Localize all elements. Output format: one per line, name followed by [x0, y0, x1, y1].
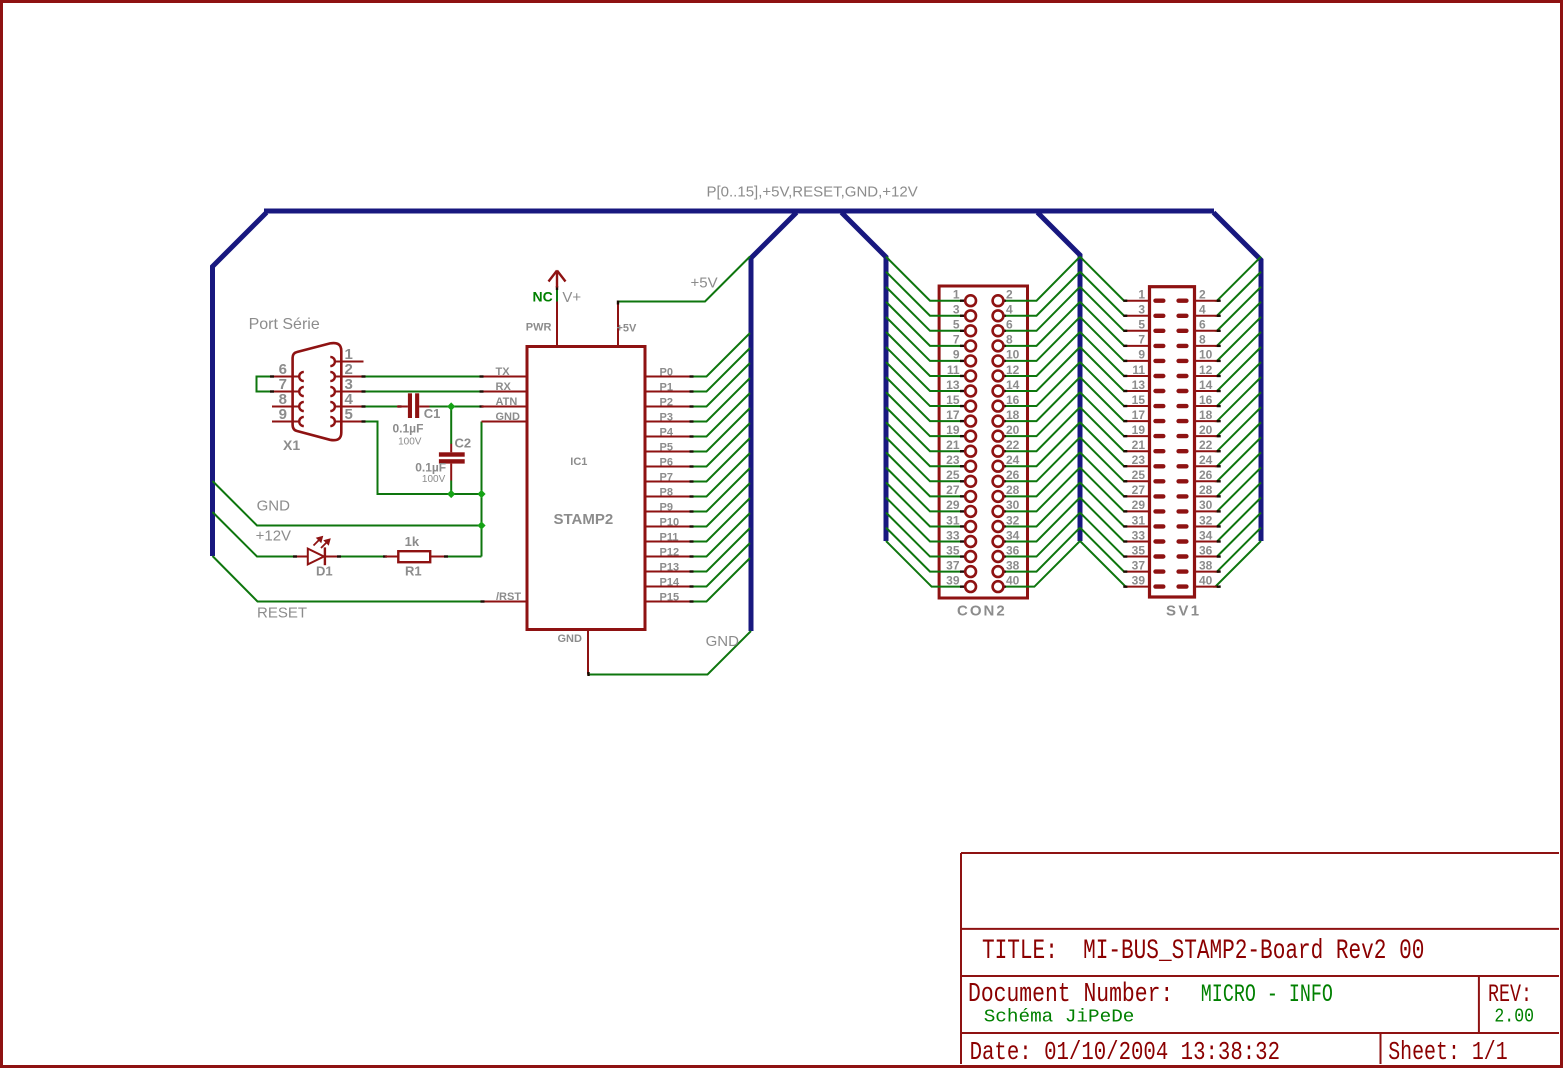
wire SV1 pin 30 to bus: [1217, 467, 1261, 511]
SV1 pin 39 stub: [1125, 586, 1151, 588]
wire SV1 pin 27 to bus: [1080, 452, 1125, 496]
CON2 pin 31 circle: [960, 525, 964, 527]
wire P4 to bus: [692, 393, 751, 437]
svg-text:15: 15: [946, 393, 960, 407]
svg-text:16: 16: [1199, 393, 1213, 407]
SV1 pin 40 stub: [1193, 586, 1219, 588]
SV1 pin 19 stub: [1125, 435, 1151, 437]
svg-text:P2: P2: [660, 397, 673, 409]
IC1 pin +5V line: [617, 302, 619, 347]
svg-text:D1: D1: [316, 564, 333, 579]
wire CON2 pin 14 to bus: [1004, 347, 1080, 391]
wire CON2 pin 39 to bus: [886, 541, 961, 587]
SV1 pin 38 contact: [1176, 569, 1188, 573]
bus P[0..15] top horizontal: [264, 209, 1214, 214]
SV1 pin 16 stub: [1193, 405, 1219, 407]
LED D1 anode lead: [294, 556, 308, 558]
svg-text:40: 40: [1006, 573, 1020, 587]
svg-text:IC1: IC1: [570, 456, 587, 468]
wire CON2 pin 9 to bus: [886, 317, 961, 361]
SV1 pin 31 stub: [1125, 525, 1151, 527]
svg-text:0.1µF: 0.1µF: [415, 460, 446, 474]
bus left arm to left trunk: [213, 213, 267, 557]
wire SV1 pin 38 to bus: [1217, 528, 1261, 572]
svg-text:20: 20: [1006, 423, 1020, 437]
svg-text:26: 26: [1199, 468, 1213, 482]
svg-text:32: 32: [1006, 513, 1020, 527]
wire CON2 pin 37 to bus: [886, 528, 961, 572]
SV1 pin 24 contact: [1176, 464, 1188, 468]
svg-text:17: 17: [946, 408, 960, 422]
wire CON2 pin 21 to bus: [886, 407, 961, 451]
wire CON2 pin 35 to bus: [886, 513, 961, 557]
wire C2 bottom: [450, 481, 452, 495]
SV1 pin 25 contact: [1153, 479, 1165, 483]
wire SV1 pin 32 to bus: [1217, 482, 1261, 526]
CON2 pin 27 circle: [960, 495, 964, 497]
wire P3 to bus: [692, 378, 751, 422]
title block grid: [961, 852, 1559, 854]
wire P11 to bus: [692, 498, 751, 542]
svg-text:TITLE: MI-BUS_STAMP2-Board Re: TITLE: MI-BUS_STAMP2-Board Rev2 00: [982, 936, 1424, 966]
svg-text:ATN: ATN: [496, 396, 518, 408]
CON2 pin 24 circle: [1002, 465, 1006, 467]
SV1 pin 33 stub: [1125, 541, 1151, 543]
SV1 pin 35 contact: [1153, 554, 1165, 558]
CON2 pin 40 circle: [1002, 585, 1006, 587]
CON2 pin 11 circle: [960, 375, 964, 377]
CON2 pin 6 circle: [1002, 330, 1006, 332]
CON2 pin 39 circle: [960, 585, 964, 587]
svg-text:5: 5: [953, 318, 960, 332]
svg-text:30: 30: [1199, 498, 1213, 512]
IC1 pin P1 line: [646, 391, 692, 393]
SV1 pin 7 stub: [1125, 345, 1151, 347]
svg-text:29: 29: [1132, 498, 1146, 512]
SV1 pin 16 contact: [1176, 404, 1188, 408]
SV1 pin 38 stub: [1193, 571, 1219, 573]
SV1 pin 18 stub: [1193, 420, 1219, 422]
wire CON2 pin 30 to bus: [1004, 467, 1080, 511]
IC1 pin P7 line: [646, 481, 692, 483]
svg-text:P0: P0: [660, 367, 673, 379]
svg-text:39: 39: [946, 573, 960, 587]
svg-text:SV1: SV1: [1166, 603, 1202, 620]
SV1 pin 21 contact: [1153, 449, 1165, 453]
svg-text:13: 13: [946, 378, 960, 392]
wire CON2 pin 32 to bus: [1004, 482, 1080, 526]
svg-text:14: 14: [1006, 378, 1020, 392]
wire P14 to bus: [692, 543, 751, 587]
svg-text:29: 29: [946, 498, 960, 512]
wire CON2 pin 22 to bus: [1004, 407, 1080, 451]
wire P5 to bus: [692, 408, 751, 452]
wire CON2 pin 6 to bus: [1004, 287, 1080, 331]
svg-text:34: 34: [1199, 528, 1213, 542]
wire CON2 pin 18 to bus: [1004, 377, 1080, 421]
wire SV1 pin 40 to bus: [1215, 541, 1261, 587]
wire SV1 pin 12 to bus: [1217, 332, 1261, 376]
wire CON2 pin 4 to bus: [1004, 272, 1080, 316]
wire CON2 pin 25 to bus: [886, 437, 961, 481]
wire SV1 pin 23 to bus: [1080, 422, 1125, 466]
SV1 pin 9 contact: [1153, 359, 1165, 363]
svg-text:100V: 100V: [398, 436, 422, 447]
wire +5V to bus: [618, 257, 750, 302]
CON2 pin 20 circle: [1002, 435, 1006, 437]
CON2 pin 19 circle: [960, 435, 964, 437]
SV1 pin 25 stub: [1125, 480, 1151, 482]
svg-text:100V: 100V: [422, 474, 446, 485]
CON2 pin 17 circle: [960, 420, 964, 422]
SV1 pin 4 stub: [1193, 315, 1219, 317]
svg-text:Sheet: 1/1: Sheet: 1/1: [1388, 1038, 1508, 1067]
SV1 pin 32 stub: [1193, 525, 1219, 527]
bus arm to mid trunk (CON2/SV1): [1038, 213, 1081, 542]
wire SV1 pin 10 to bus: [1217, 317, 1261, 361]
svg-text:38: 38: [1199, 558, 1213, 572]
svg-text:R1: R1: [405, 564, 422, 579]
SV1 pin 34 contact: [1176, 539, 1188, 543]
wire SV1 pin 17 to bus: [1080, 377, 1125, 421]
wire GND vertical (IC GND to R1): [481, 422, 483, 557]
SV1 pin 27 contact: [1153, 494, 1165, 498]
svg-text:20: 20: [1199, 423, 1213, 437]
wire P7 to bus: [692, 438, 751, 482]
X1 left pin contacts (pins 6-9): [299, 372, 304, 381]
svg-text:P4: P4: [660, 427, 674, 439]
X1 left pin lines 6-9: [272, 376, 300, 378]
wire CON2 pin 23 to bus: [886, 422, 961, 466]
CON2 pin 16 circle: [1002, 405, 1006, 407]
SV1 pin 11 contact: [1153, 374, 1165, 378]
wire R1 to GND vertical: [446, 556, 482, 558]
SV1 pin 10 stub: [1193, 360, 1219, 362]
SV1 pin 17 stub: [1125, 420, 1151, 422]
wire +12V from bus: [213, 512, 296, 557]
svg-text:5: 5: [345, 406, 353, 423]
wire CON2 pin 2 to bus: [1004, 257, 1080, 301]
CON2 pin 4 circle: [1002, 315, 1006, 317]
svg-text:4: 4: [1006, 303, 1013, 317]
svg-text:13: 13: [1132, 378, 1146, 392]
IC1 pin P8 line: [646, 496, 692, 498]
junction ATN/C2: [447, 402, 455, 410]
svg-text:27: 27: [1132, 483, 1146, 497]
wire D1 to R1: [339, 556, 385, 558]
wire NC stub on PWR: [556, 288, 558, 302]
svg-text:40: 40: [1199, 573, 1213, 587]
wire SV1 pin 35 to bus: [1080, 513, 1125, 557]
svg-text:9: 9: [1138, 348, 1145, 362]
svg-text:17: 17: [1132, 408, 1146, 422]
svg-text:9: 9: [279, 406, 287, 423]
SV1 pin 5 contact: [1153, 329, 1165, 333]
CON2 pin 13 circle: [960, 390, 964, 392]
SV1 pin 28 contact: [1176, 494, 1188, 498]
svg-text:+5V: +5V: [617, 323, 638, 335]
SV1 pin 10 contact: [1176, 359, 1188, 363]
IC1 pin P2 line: [646, 406, 692, 408]
svg-text:22: 22: [1006, 438, 1020, 452]
svg-text:31: 31: [946, 513, 960, 527]
svg-text:TX: TX: [496, 366, 511, 378]
X1 right pin lines 1-5: [335, 361, 364, 363]
wire P6 to bus: [692, 423, 751, 467]
svg-text:12: 12: [1006, 363, 1020, 377]
SV1 pin 34 stub: [1193, 541, 1219, 543]
SV1 pin 22 stub: [1193, 450, 1219, 452]
wire CON2 pin 24 to bus: [1004, 422, 1080, 466]
wire SV1 pin 37 to bus: [1080, 528, 1125, 572]
SV1 pin 12 stub: [1193, 375, 1219, 377]
capacitor C1 plates: [408, 393, 412, 418]
wire CON2 pin 20 to bus: [1004, 392, 1080, 436]
wire CON2 pin 16 to bus: [1004, 362, 1080, 406]
svg-text:18: 18: [1199, 408, 1213, 422]
SV1 pin 18 contact: [1176, 419, 1188, 423]
svg-text:GND: GND: [257, 498, 291, 515]
IC1 pin P5 line: [646, 451, 692, 453]
svg-text:23: 23: [1132, 453, 1146, 467]
svg-text:3: 3: [953, 303, 960, 317]
svg-text:9: 9: [953, 348, 960, 362]
svg-text:3: 3: [1138, 303, 1145, 317]
CON2 pin 30 circle: [1002, 510, 1006, 512]
SV1 pin 21 stub: [1125, 450, 1151, 452]
svg-text:X1: X1: [283, 437, 300, 453]
SV1 pin 15 contact: [1153, 404, 1165, 408]
svg-text:P13: P13: [660, 562, 680, 574]
SV1 pin 6 stub: [1193, 330, 1219, 332]
CON2 pin 33 circle: [960, 540, 964, 542]
svg-text:CON2: CON2: [957, 603, 1007, 620]
SV1 pin 40 contact: [1176, 584, 1188, 588]
svg-text:28: 28: [1199, 483, 1213, 497]
svg-text:21: 21: [946, 438, 960, 452]
svg-text:37: 37: [946, 558, 960, 572]
wire SV1 pin 25 to bus: [1080, 437, 1125, 481]
CON2 pin 15 circle: [960, 405, 964, 407]
svg-text:11: 11: [947, 363, 960, 377]
SV1 pin 23 stub: [1125, 465, 1151, 467]
IC1 pin P4 line: [646, 436, 692, 438]
SV1 pin 29 stub: [1125, 510, 1151, 512]
SV1 pin 27 stub: [1125, 495, 1151, 497]
SV1 pin 35 stub: [1125, 556, 1151, 558]
bus arm to CON2-left trunk: [842, 213, 887, 542]
svg-text:+12V: +12V: [256, 528, 291, 545]
wire IC GND to bus: [588, 631, 751, 675]
svg-text:1k: 1k: [405, 534, 420, 549]
svg-text:36: 36: [1199, 543, 1213, 557]
wire CON2 pin 12 to bus: [1004, 332, 1080, 376]
CON2 pin 35 circle: [960, 555, 964, 557]
svg-text:7: 7: [953, 333, 960, 347]
wire CON2 pin 7 to bus: [886, 302, 961, 346]
wire SV1 pin 4 to bus: [1217, 272, 1261, 316]
CON2 pin 28 circle: [1002, 495, 1006, 497]
wire CON2 pin 10 to bus: [1004, 317, 1080, 361]
IC1 pin P10 line: [646, 526, 692, 528]
wire TX (pin2 to IC): [364, 376, 482, 378]
IC1 STAMP2 body: [527, 347, 645, 630]
svg-text:P7: P7: [660, 472, 673, 484]
svg-text:GND: GND: [496, 411, 521, 423]
svg-text:19: 19: [946, 423, 960, 437]
IC1 pin TX line: [482, 376, 527, 378]
wire SV1 pin 21 to bus: [1080, 407, 1125, 451]
wire CON2 pin 31 to bus: [886, 482, 961, 526]
svg-text:Schéma JiPeDe: Schéma JiPeDe: [984, 1006, 1135, 1028]
resistor R1 leads: [385, 556, 398, 558]
wire P9 to bus: [692, 468, 751, 512]
SV1 pin 33 contact: [1153, 539, 1165, 543]
IC1 pin GND line: [482, 421, 527, 423]
svg-text:NC: NC: [533, 288, 553, 304]
SV1 pin 26 stub: [1193, 480, 1219, 482]
svg-text:2: 2: [1199, 288, 1206, 302]
wire SV1 pin 1 to bus: [1080, 257, 1125, 301]
LED D1 cathode lead: [325, 556, 339, 558]
wire SV1 pin 3 to bus: [1080, 272, 1125, 316]
SV1 pin 36 contact: [1176, 554, 1188, 558]
SV1 pin 22 contact: [1176, 449, 1188, 453]
wire SV1 pin 9 to bus: [1080, 317, 1125, 361]
LED D1 triangle: [308, 549, 324, 565]
CON2 pin 38 circle: [1002, 570, 1006, 572]
IC1 pin P15 line: [646, 601, 692, 603]
svg-text:39: 39: [1132, 573, 1146, 587]
svg-text:36: 36: [1006, 543, 1020, 557]
CON2 pin 25 circle: [960, 480, 964, 482]
SV1 pin 13 contact: [1153, 389, 1165, 393]
CON2 pin 23 circle: [960, 465, 964, 467]
wire P13 to bus: [692, 528, 751, 572]
svg-text:18: 18: [1006, 408, 1020, 422]
SV1 pin 20 stub: [1193, 435, 1219, 437]
svg-text:8: 8: [1199, 333, 1206, 347]
wire SV1 pin 11 to bus: [1080, 332, 1125, 376]
wire SV1 pin 28 to bus: [1217, 452, 1261, 496]
CON2 body: [939, 286, 1027, 598]
IC1 pin P9 line: [646, 511, 692, 513]
IC1 pin P11 line: [646, 541, 692, 543]
CON2 pin 22 circle: [1002, 450, 1006, 452]
IC1 pin PWR line: [556, 302, 558, 347]
wire CON2 pin 36 to bus: [1004, 513, 1080, 557]
svg-text:15: 15: [1132, 393, 1146, 407]
wire CON2 pin 27 to bus: [886, 452, 961, 496]
SV1 pin 30 stub: [1193, 510, 1219, 512]
svg-text:35: 35: [946, 543, 960, 557]
LED D1 cathode bar: [324, 547, 326, 565]
wire SV1 pin 26 to bus: [1217, 437, 1261, 481]
IC1 pin /RST line: [482, 601, 527, 603]
IC1 pin GND bottom line: [587, 630, 589, 675]
SV1 pin 3 contact: [1153, 314, 1165, 318]
SV1 pin 4 contact: [1176, 314, 1188, 318]
CON2 pin 37 circle: [960, 570, 964, 572]
svg-text:P11: P11: [660, 532, 679, 544]
SV1 pin 13 stub: [1125, 390, 1151, 392]
wire CON2 pin 38 to bus: [1004, 528, 1080, 572]
svg-text:P[0..15],+5V,RESET,GND,+12V: P[0..15],+5V,RESET,GND,+12V: [707, 183, 918, 200]
CON2 pin 29 circle: [960, 510, 964, 512]
wire RX (pin3 to IC): [364, 391, 482, 393]
svg-text:28: 28: [1006, 483, 1020, 497]
wire SV1 pin 24 to bus: [1217, 422, 1261, 466]
svg-text:+5V: +5V: [691, 275, 718, 292]
svg-text:12: 12: [1199, 363, 1213, 377]
wire SV1 pin 6 to bus: [1217, 287, 1261, 331]
wire C2 top: [450, 407, 452, 445]
CON2 pin 7 circle: [960, 345, 964, 347]
svg-text:RX: RX: [496, 381, 512, 393]
svg-text:35: 35: [1132, 543, 1146, 557]
wire CON2 pin 13 to bus: [886, 347, 961, 391]
capacitor C1 leads: [397, 406, 408, 408]
SV1 pin 14 stub: [1193, 390, 1219, 392]
bus arm to right trunk (SV1): [1214, 213, 1262, 542]
wire SV1 pin 5 to bus: [1080, 287, 1125, 331]
wire SV1 pin 14 to bus: [1217, 347, 1261, 391]
svg-text:2: 2: [1006, 288, 1013, 302]
svg-text:0.1µF: 0.1µF: [393, 421, 424, 435]
SV1 pin 37 contact: [1153, 569, 1165, 573]
CON2 pin 14 circle: [1002, 390, 1006, 392]
IC1 pin P14 line: [646, 586, 692, 588]
LED D1 arrows: [314, 537, 330, 548]
svg-text:6: 6: [1199, 318, 1206, 332]
svg-text:23: 23: [946, 453, 960, 467]
SV1 pin 30 contact: [1176, 509, 1188, 513]
svg-text:25: 25: [1132, 468, 1146, 482]
IC1 pin P0 line: [646, 376, 692, 378]
SV1 pin 37 stub: [1125, 571, 1151, 573]
IC1 pin P12 line: [646, 556, 692, 558]
wire CON2 pin 34 to bus: [1004, 498, 1080, 542]
junction C2/GND5: [447, 490, 455, 498]
CON2 pin 1 circle: [960, 300, 964, 302]
svg-text:33: 33: [946, 528, 960, 542]
svg-text:P3: P3: [660, 412, 673, 424]
SV1 pin 14 contact: [1176, 389, 1188, 393]
wire CON2 pin 33 to bus: [886, 498, 961, 542]
svg-text:Date: 01/10/2004 13:38:32: Date: 01/10/2004 13:38:32: [970, 1038, 1280, 1068]
SV1 pin 20 contact: [1176, 434, 1188, 438]
wire CON2 pin 15 to bus: [886, 362, 961, 406]
wire RESET from bus: [213, 556, 482, 602]
CON2 pin 32 circle: [1002, 525, 1006, 527]
junction vert/494: [477, 490, 485, 498]
SV1 pin 1 contact: [1153, 299, 1165, 303]
svg-text:6: 6: [1006, 318, 1013, 332]
svg-text:16: 16: [1006, 393, 1020, 407]
SV1 pin 5 stub: [1125, 330, 1151, 332]
wire ATN left (pin4 to C1): [364, 406, 400, 408]
SV1 body: [1150, 287, 1195, 597]
CON2 pin 34 circle: [1002, 540, 1006, 542]
svg-text:19: 19: [1132, 423, 1146, 437]
wire SV1 pin 34 to bus: [1217, 498, 1261, 542]
svg-text:GND: GND: [558, 633, 583, 645]
SV1 pin 9 stub: [1125, 360, 1151, 362]
CON2 pin 10 circle: [1002, 360, 1006, 362]
SV1 pin 17 contact: [1153, 419, 1165, 423]
svg-text:7: 7: [1138, 333, 1145, 347]
CON2 pin 21 circle: [960, 450, 964, 452]
